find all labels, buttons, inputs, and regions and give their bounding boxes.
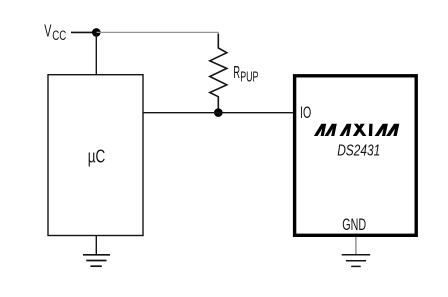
wire DS2431 GND to ground <box>355 237 357 254</box>
ground symbol under uC <box>83 255 110 266</box>
DS2431 box U2 <box>295 76 417 236</box>
ground symbol under DS2431 <box>342 255 371 267</box>
svg-text:V: V <box>44 20 52 40</box>
wire uC bottom to ground <box>95 236 97 255</box>
svg-text:R: R <box>233 62 240 82</box>
junction dot at IO node <box>214 108 223 117</box>
microcontroller box U1 (uC) <box>48 75 143 236</box>
wire VCC junction to resistor top (gray) <box>96 31 219 33</box>
junction dot at VCC node <box>92 28 101 37</box>
svg-text:µC: µC <box>88 146 106 167</box>
logo letter M2 <box>375 124 400 136</box>
svg-text:PUP: PUP <box>240 70 258 86</box>
svg-text:DS2431: DS2431 <box>337 142 380 159</box>
wire VCC to junction <box>71 31 96 33</box>
svg-text:IO: IO <box>300 103 311 122</box>
wire vertical junction to uC box top <box>95 32 97 74</box>
logo letter A <box>340 124 352 136</box>
svg-text:GND: GND <box>342 215 366 234</box>
svg-text:CC: CC <box>52 28 66 44</box>
logo letter I <box>369 124 373 136</box>
MAXIM logo <box>314 124 399 136</box>
wire IO net: uC to DS2431 <box>143 112 294 114</box>
logo letter M1 <box>314 124 337 136</box>
logo letter X <box>353 124 365 136</box>
resistor RPUP zigzag <box>210 34 227 113</box>
